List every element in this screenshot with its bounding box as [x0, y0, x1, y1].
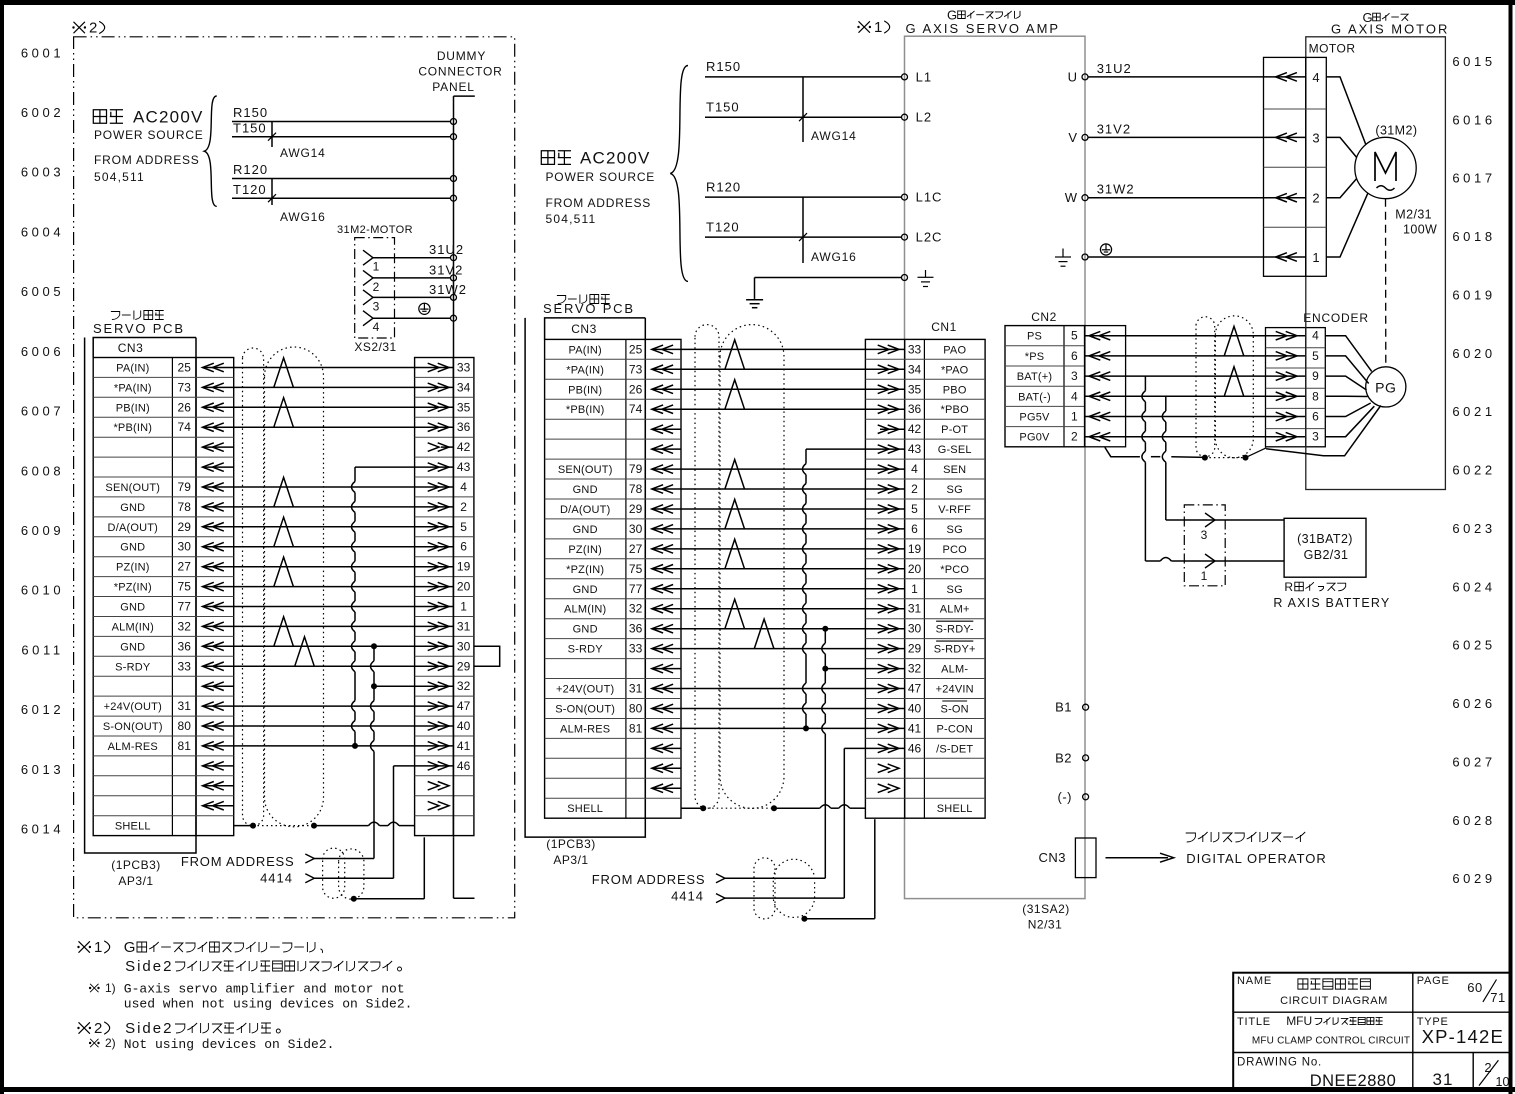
svg-text:(31BAT2): (31BAT2)	[1297, 532, 1353, 546]
svg-text:ALM(IN): ALM(IN)	[112, 621, 154, 633]
power source text left	[93, 110, 106, 124]
svg-text:19: 19	[457, 560, 471, 574]
arrow-in CN2 row 4	[1089, 392, 1110, 401]
svg-text:G: G	[124, 939, 136, 956]
twisted pair mark rows 2-3 mid	[725, 380, 745, 410]
svg-text:DIGITAL OPERATOR: DIGITAL OPERATOR	[1186, 851, 1326, 866]
arrow-in mid CN3 row 20	[652, 724, 673, 733]
svg-text:G-axis servo amplifier and mot: G-axis servo amplifier and motor not	[124, 982, 405, 997]
wire left block row SEN(OUT)	[234, 486, 415, 488]
arrow-out CN1 row 1	[878, 345, 899, 354]
arrow-in left CN3 row 10	[203, 542, 224, 551]
arrow-in left CN3 row 16	[203, 662, 224, 671]
arrow-out CN1 row 18	[878, 684, 899, 693]
svg-text:used when not using devices on: used when not using devices on Side2.	[124, 997, 413, 1012]
dummy panel pin 1	[415, 606, 454, 608]
arrow-in mid CN3 row 8	[652, 485, 673, 494]
svg-text:43: 43	[908, 442, 922, 456]
servo pcb label left	[111, 312, 120, 320]
svg-text:M2/31: M2/31	[1395, 208, 1432, 222]
dummy panel pin 6	[415, 546, 454, 548]
amp header *1	[859, 21, 870, 32]
arrow-in left CN3 row 11	[203, 562, 224, 571]
wire mid block row ALM-RES	[681, 727, 865, 729]
svg-text:3: 3	[1071, 369, 1078, 383]
dummy panel pin 22	[428, 801, 449, 810]
svg-text:2: 2	[89, 20, 97, 37]
power source text middle	[541, 151, 554, 165]
svg-text:36: 36	[908, 402, 922, 416]
svg-text:47: 47	[457, 699, 471, 713]
arrow-in left CN3 row 12	[203, 582, 224, 591]
motor connector pin 3	[1264, 136, 1306, 138]
arrow-out CN1 row 8	[878, 485, 899, 494]
encoder pin 5	[1276, 352, 1297, 361]
svg-text:S-ON: S-ON	[941, 704, 969, 716]
svg-text:2: 2	[1484, 1060, 1491, 1075]
arrow-out CN1 row 7	[878, 465, 899, 474]
svg-text:GND: GND	[120, 602, 145, 614]
twisted pairs CN2	[1224, 326, 1244, 356]
svg-text:PAO: PAO	[943, 344, 966, 356]
wire left block row *PZ(IN)	[234, 586, 415, 588]
AWG14 tick and label left	[271, 122, 273, 148]
svg-text:5: 5	[1312, 349, 1319, 363]
svg-text:6023: 6023	[1452, 521, 1495, 536]
svg-text:20: 20	[457, 580, 471, 594]
wire mid block row PA(IN)	[681, 348, 865, 350]
svg-text:6009: 6009	[21, 523, 64, 538]
arrow-in mid CN3 row 5	[652, 425, 673, 434]
arrow-in mid CN3 row 12	[652, 565, 673, 574]
panel terminal at y297.4	[451, 294, 457, 300]
arrow-in mid CN3 row 22	[652, 764, 673, 773]
wire mid block row +24V(OUT)	[681, 688, 865, 690]
svg-text:32: 32	[629, 602, 643, 616]
svg-text:R120: R120	[706, 180, 741, 195]
svg-text:4: 4	[911, 462, 918, 476]
shield drain CN2	[1105, 447, 1140, 456]
svg-text:*PB(IN): *PB(IN)	[566, 404, 605, 416]
svg-text:CN3: CN3	[1038, 850, 1066, 865]
svg-text:T150: T150	[233, 120, 267, 135]
dummy panel pin 41	[415, 745, 454, 747]
twisted pair mark rows 10-11 left	[274, 557, 294, 587]
label *2) top-left	[74, 22, 85, 33]
encoder fan wire y437	[1325, 406, 1374, 437]
svg-text:PANEL: PANEL	[432, 80, 474, 94]
shield stadiums left block	[243, 348, 264, 826]
svg-text:DNEE2880: DNEE2880	[1310, 1072, 1397, 1090]
motor circle M	[1355, 137, 1416, 198]
arrow-in mid CN3 row 10	[652, 525, 673, 534]
panel terminal at y198.2	[451, 195, 457, 201]
svg-text:PA(IN): PA(IN)	[116, 363, 149, 375]
svg-text:73: 73	[629, 362, 643, 376]
svg-text:78: 78	[178, 500, 192, 514]
wire left block row GND	[234, 645, 415, 647]
arrow-out CN1 row 10	[878, 525, 899, 534]
svg-text:ALM-: ALM-	[941, 664, 968, 676]
svg-text:/S-DET: /S-DET	[936, 743, 973, 755]
svg-text:U: U	[1068, 69, 1078, 84]
svg-text:6026: 6026	[1452, 696, 1495, 711]
twisted pair mark rows 0-1 left	[274, 358, 294, 388]
dummy panel pin 35	[415, 406, 454, 408]
twisted pair mark rows 8-9 mid	[725, 499, 745, 529]
svg-text:CN1: CN1	[931, 320, 957, 334]
wire left block row S-ON(OUT)	[234, 725, 415, 727]
arrow-out CN1 row 12	[878, 565, 899, 574]
svg-text:31W2: 31W2	[429, 282, 467, 297]
svg-text:6010: 6010	[21, 583, 64, 598]
arrow-in CN2 row 5	[1089, 412, 1110, 421]
svg-text:6: 6	[1071, 349, 1078, 363]
arrow-out CN1 row 4	[878, 405, 899, 414]
svg-text:PG5V: PG5V	[1019, 412, 1050, 424]
encoder pin 9	[1276, 372, 1297, 381]
dummy panel pin 29	[415, 665, 454, 667]
arrow-in left CN3 row 6	[203, 463, 224, 472]
svg-text:PS: PS	[1027, 331, 1042, 343]
wire pin43 bus x355	[355, 466, 415, 468]
svg-text:GND: GND	[573, 524, 598, 536]
wire left block row PA(IN)	[234, 367, 415, 369]
svg-text:35: 35	[908, 382, 922, 396]
wire mid block row GND	[681, 528, 865, 530]
svg-text:V-RFF: V-RFF	[938, 504, 971, 516]
svg-text:PG0V: PG0V	[1019, 432, 1050, 444]
svg-text:CONNECTOR: CONNECTOR	[418, 65, 502, 79]
svg-text:78: 78	[629, 482, 643, 496]
svg-text:T120: T120	[233, 182, 267, 197]
svg-text:GND: GND	[120, 641, 145, 653]
svg-text:5: 5	[911, 502, 918, 516]
31M2 connector pin 2 wire 31V2	[363, 270, 373, 285]
svg-text:29: 29	[908, 642, 922, 656]
twisted pair mark rows 0-1 mid	[725, 340, 745, 370]
arrow-out CN1 row 19	[878, 704, 899, 713]
svg-text:80: 80	[629, 702, 643, 716]
arrow-in left CN3 row 20	[203, 742, 224, 751]
svg-text:D/A(OUT): D/A(OUT)	[108, 522, 158, 534]
svg-text:6016: 6016	[1452, 112, 1495, 127]
svg-text:32: 32	[178, 619, 192, 633]
shield stadiums CN2	[1196, 317, 1215, 457]
arrow-out CN1 row 13	[878, 585, 899, 594]
arrow-out CN1 row 23	[878, 784, 899, 793]
svg-text:33: 33	[178, 659, 192, 673]
svg-text:30: 30	[629, 522, 643, 536]
dummy panel pin 20	[415, 586, 454, 588]
svg-text:79: 79	[178, 480, 192, 494]
svg-text:25: 25	[629, 342, 643, 356]
arrow-out CN1 row 9	[878, 505, 899, 514]
dummy panel pin 32	[415, 685, 454, 687]
svg-text:SERVO PCB: SERVO PCB	[543, 301, 635, 316]
wire mid block row D/A(OUT)	[681, 508, 865, 510]
svg-text:33: 33	[629, 642, 643, 656]
svg-text:PB(IN): PB(IN)	[568, 384, 602, 396]
svg-text:GND: GND	[120, 542, 145, 554]
svg-text:31W2: 31W2	[1097, 182, 1135, 197]
svg-text:ALM-RES: ALM-RES	[560, 723, 610, 735]
svg-text:47: 47	[908, 682, 922, 696]
motor connector table	[1264, 57, 1306, 276]
svg-text:R150: R150	[233, 105, 268, 120]
svg-text:PAGE: PAGE	[1417, 975, 1450, 987]
svg-text:AWG16: AWG16	[811, 250, 857, 264]
wire mid block row *PB(IN)	[681, 408, 865, 410]
arrow-out CN1 row 20	[878, 724, 899, 733]
dummy panel pin 21	[428, 782, 449, 791]
encoder fan wire y396	[1325, 395, 1367, 397]
svg-text:6013: 6013	[21, 762, 64, 777]
FROM ADDRESS wire 1 middle	[725, 877, 825, 879]
svg-text:SEN(OUT): SEN(OUT)	[105, 482, 160, 494]
dummy panel pin 33	[415, 367, 454, 369]
svg-text:9: 9	[1312, 369, 1319, 383]
arrow-in CN2 row 3	[1089, 372, 1110, 381]
middle PCB outline box	[525, 318, 645, 837]
svg-text:*PCO: *PCO	[940, 564, 969, 576]
encoder fan wire y336	[1325, 336, 1371, 372]
svg-text:30: 30	[178, 540, 192, 554]
svg-text:B2: B2	[1055, 750, 1072, 765]
servo pcb label middle	[557, 296, 566, 304]
svg-text:2: 2	[911, 482, 918, 496]
arrow-in mid CN3 row 23	[652, 784, 673, 793]
wire left block row +24V(OUT)	[234, 705, 415, 707]
svg-text:P-OT: P-OT	[941, 424, 968, 436]
svg-text:L2: L2	[916, 110, 932, 125]
arrow-in mid CN3 row 14	[652, 604, 673, 613]
svg-text:81: 81	[178, 739, 192, 753]
svg-text:FROM ADDRESS: FROM ADDRESS	[94, 153, 200, 167]
svg-text:XS2/31: XS2/31	[354, 340, 396, 354]
svg-text:77: 77	[178, 600, 192, 614]
svg-text:V: V	[1068, 130, 1078, 145]
encoder fan wire y376	[1325, 376, 1366, 390]
svg-text:6: 6	[460, 540, 467, 554]
svg-text:5: 5	[1071, 329, 1078, 343]
svg-text:29: 29	[457, 659, 471, 673]
svg-text:34: 34	[908, 362, 922, 376]
svg-text:*PA(IN): *PA(IN)	[566, 364, 604, 376]
svg-text:40: 40	[908, 702, 922, 716]
wire left block row PB(IN)	[234, 406, 415, 408]
svg-text:1: 1	[1071, 410, 1078, 424]
svg-text:(1PCB3): (1PCB3)	[111, 858, 161, 872]
svg-text:40: 40	[457, 719, 471, 733]
wire left block row *PB(IN)	[234, 426, 415, 428]
svg-text:6020: 6020	[1452, 346, 1495, 361]
AWG16 tick middle	[802, 197, 804, 263]
svg-text:SG: SG	[947, 584, 963, 596]
svg-text:3: 3	[373, 299, 380, 313]
svg-text:GND: GND	[573, 584, 598, 596]
svg-text:75: 75	[178, 580, 192, 594]
svg-text:PG: PG	[1375, 380, 1396, 396]
svg-text:34: 34	[457, 380, 471, 394]
svg-text:3: 3	[1312, 130, 1319, 145]
svg-text:POWER SOURCE: POWER SOURCE	[94, 128, 204, 142]
svg-text:6004: 6004	[21, 224, 64, 239]
svg-text:31: 31	[457, 619, 471, 633]
panel terminal at y121.5	[451, 119, 457, 125]
svg-text:SHELL: SHELL	[937, 803, 973, 815]
svg-text:PCO: PCO	[942, 544, 967, 556]
svg-text:S-ON(OUT): S-ON(OUT)	[555, 704, 615, 716]
svg-text:6003: 6003	[21, 165, 64, 180]
wire mid block row PB(IN)	[681, 388, 865, 390]
svg-text:1): 1)	[105, 981, 116, 995]
arrow-in CN2 row 6	[1089, 432, 1110, 441]
svg-text:3: 3	[1312, 430, 1319, 444]
svg-text:20: 20	[908, 562, 922, 576]
svg-text:S-RDY: S-RDY	[115, 661, 151, 673]
arrow-in mid CN3 row 1	[652, 345, 673, 354]
svg-text:35: 35	[457, 400, 471, 414]
svg-text:25: 25	[178, 361, 192, 375]
twisted pair mark rows 6-7 mid	[725, 460, 745, 490]
svg-text:XP-142E: XP-142E	[1422, 1026, 1504, 1047]
arrow-in left CN3 row 18	[203, 702, 224, 711]
FROM ADDRESS wire 2 left	[314, 877, 393, 879]
arrow-in left CN3 row 17	[203, 682, 224, 691]
svg-text:3: 3	[1201, 528, 1208, 542]
wire mid block row *PZ(IN)	[681, 568, 865, 570]
svg-text:+24V(OUT): +24V(OUT)	[104, 701, 162, 713]
encoder pin 4	[1276, 331, 1297, 340]
svg-text:S-ON(OUT): S-ON(OUT)	[103, 721, 163, 733]
svg-text:+24VIN: +24VIN	[936, 684, 974, 696]
encoder fan wire y417	[1325, 403, 1370, 417]
svg-text:30: 30	[457, 639, 471, 653]
svg-text:31: 31	[629, 682, 643, 696]
svg-text:2: 2	[94, 1020, 102, 1037]
svg-text:AP3/1: AP3/1	[553, 853, 588, 867]
motor fan wire y137.4	[1326, 137, 1356, 157]
wire left block row *PA(IN)	[234, 386, 415, 388]
bus x844.3 middle pin46 to 4414	[844, 747, 865, 749]
svg-text:AWG14: AWG14	[280, 146, 326, 160]
arrow-in mid CN3 row 4	[652, 405, 673, 414]
svg-text:*PA(IN): *PA(IN)	[114, 382, 152, 394]
svg-text:504,511: 504,511	[546, 212, 597, 226]
arrow-in mid CN3 row 11	[652, 545, 673, 554]
svg-text:GB2/31: GB2/31	[1304, 548, 1349, 562]
svg-text:6024: 6024	[1452, 579, 1495, 594]
wire left block row D/A(OUT)	[234, 526, 415, 528]
arrow-in mid CN3 row 21	[652, 744, 673, 753]
arrow-in CN2 row 1	[1089, 331, 1110, 340]
dashed shaft line motor to PG	[1385, 199, 1387, 367]
svg-text:DRAWING No.: DRAWING No.	[1237, 1057, 1322, 1069]
svg-text:G AXIS SERVO AMP: G AXIS SERVO AMP	[906, 21, 1061, 36]
svg-text:AC200V: AC200V	[133, 108, 204, 127]
svg-text:*PBO: *PBO	[941, 404, 970, 416]
svg-text:AP3/1: AP3/1	[118, 874, 153, 888]
wire CN2 row 1 to encoder	[1085, 335, 1306, 337]
twisted pair mark rows 8-9 left	[274, 517, 294, 547]
arrow-out CN1 row 6	[878, 445, 899, 454]
31M2 connector pin 1 wire 31U2	[363, 250, 373, 265]
svg-text:G-SEL: G-SEL	[938, 444, 972, 456]
servo amp box	[905, 36, 1086, 898]
svg-text:73: 73	[178, 380, 192, 394]
arrow-in left CN3 row 8	[203, 503, 224, 512]
dummy panel pin 5	[415, 526, 454, 528]
svg-text:GND: GND	[573, 484, 598, 496]
31M2 connector pin 4 wire	[363, 311, 373, 326]
svg-text:31V2: 31V2	[1097, 121, 1131, 136]
wire left block row GND	[234, 506, 415, 508]
svg-text:DUMMY: DUMMY	[437, 49, 486, 63]
svg-text:29: 29	[629, 502, 643, 516]
svg-text:1: 1	[460, 600, 467, 614]
wire CN2 row 4 to encoder	[1085, 395, 1306, 397]
svg-text:BAT(-): BAT(-)	[1018, 391, 1051, 403]
svg-text:6019: 6019	[1452, 288, 1495, 303]
svg-text:31: 31	[908, 602, 922, 616]
svg-text:*PZ(IN): *PZ(IN)	[114, 582, 152, 594]
svg-text:79: 79	[629, 462, 643, 476]
wire left block row GND	[234, 606, 415, 608]
arrow-in left CN3 row 15	[203, 642, 224, 651]
svg-text:L1C: L1C	[916, 190, 943, 205]
encoder pin 3	[1276, 432, 1297, 441]
encoder shield line	[1266, 406, 1381, 456]
svg-text:FROM ADDRESS: FROM ADDRESS	[592, 872, 706, 887]
arrow-in left CN3 row 22	[203, 782, 224, 791]
arrow-out CN1 row 2	[878, 365, 899, 374]
internal ground glyph left side	[925, 270, 927, 277]
shield ovals bottom middle	[754, 858, 775, 919]
wire left block row S-RDY	[234, 665, 415, 667]
svg-text:PZ(IN): PZ(IN)	[116, 562, 150, 574]
svg-text:CN3: CN3	[571, 322, 597, 336]
arrow-in left CN3 row 21	[203, 762, 224, 771]
panel terminal at y277.9	[451, 275, 457, 281]
svg-text:SERVO PCB: SERVO PCB	[93, 321, 185, 336]
title block frame	[1233, 973, 1511, 1088]
svg-text:36: 36	[457, 420, 471, 434]
bottom drain wires left	[351, 896, 357, 902]
svg-text:31U2: 31U2	[429, 242, 464, 257]
wire CN2 row 6 to encoder	[1085, 436, 1306, 438]
svg-text:6005: 6005	[21, 284, 64, 299]
middle CN3 table grid	[545, 339, 681, 818]
note box *2 dash-dot outline	[74, 37, 515, 918]
svg-text:P-CON: P-CON	[936, 723, 972, 735]
svg-text:1: 1	[911, 582, 918, 596]
arrow-in mid CN3 row 2	[652, 365, 673, 374]
twisted pair mark rows 13-14 mid	[725, 599, 745, 629]
svg-text:SG: SG	[947, 524, 963, 536]
svg-text:SHELL: SHELL	[115, 821, 151, 833]
svg-text:43: 43	[457, 460, 471, 474]
wire mid block row GND	[681, 588, 865, 590]
svg-text:5: 5	[460, 520, 467, 534]
svg-text:S-RDY+: S-RDY+	[934, 644, 976, 656]
arrow-in left CN3 row 1	[203, 363, 224, 372]
CN2 arrow column box	[1085, 326, 1126, 447]
svg-text:27: 27	[178, 560, 192, 574]
digital operator labels	[1186, 833, 1196, 842]
svg-text:ALM+: ALM+	[940, 604, 970, 616]
panel terminal at y318.2	[451, 315, 457, 321]
